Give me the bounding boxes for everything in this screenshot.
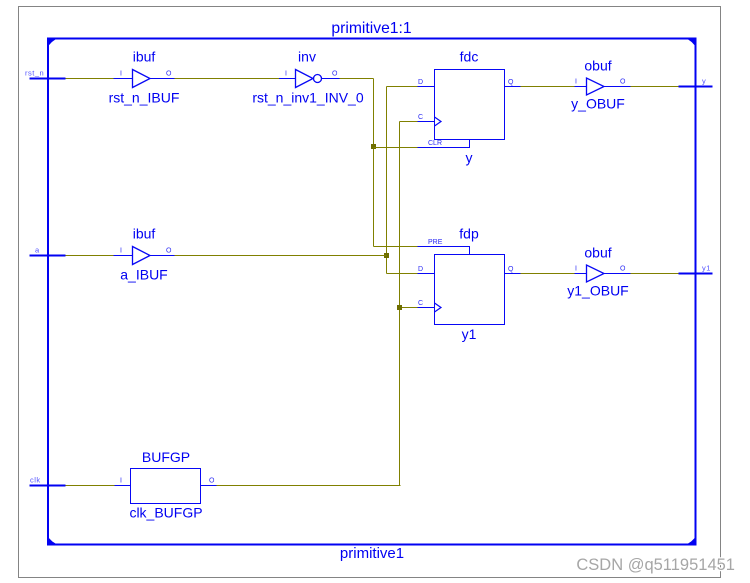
svg-text:clk_BUFGP: clk_BUFGP bbox=[129, 505, 202, 521]
inverter rst_n_inv1_INV_0 (inv) bbox=[252, 49, 364, 106]
junction on net a_IBUF bbox=[384, 253, 389, 258]
port clk bbox=[30, 476, 66, 486]
svg-text:y: y bbox=[466, 150, 473, 166]
svg-text:C: C bbox=[418, 114, 423, 121]
svg-text:rst_n_inv1_INV_0: rst_n_inv1_INV_0 bbox=[252, 90, 364, 106]
svg-text:I: I bbox=[285, 71, 287, 78]
svg-text:O: O bbox=[620, 266, 626, 273]
net clk_BUFGP : vertical to fdc C and fdp C bbox=[400, 122, 418, 486]
svg-text:I: I bbox=[575, 79, 577, 86]
svg-text:primitive1: primitive1 bbox=[340, 545, 404, 562]
buffer a_IBUF (ibuf) bbox=[114, 226, 175, 283]
svg-text:CSDN @q511951451: CSDN @q511951451 bbox=[576, 556, 735, 574]
junction on net rst_n_inv1 at CLR branch bbox=[371, 144, 376, 149]
svg-text:y_OBUF: y_OBUF bbox=[571, 96, 625, 112]
svg-text:a: a bbox=[35, 246, 40, 255]
buffer y_OBUF (obuf) bbox=[571, 58, 630, 112]
svg-text:O: O bbox=[332, 71, 338, 78]
svg-text:Q: Q bbox=[508, 79, 514, 86]
svg-text:inv: inv bbox=[298, 49, 316, 65]
junction on net clk_BUFGP bbox=[397, 305, 402, 310]
svg-text:rst_n: rst_n bbox=[25, 69, 44, 78]
flip-flop y (fdc) bbox=[418, 49, 521, 166]
wire a_IBUF output bbox=[175, 255, 387, 257]
svg-text:O: O bbox=[166, 71, 172, 78]
svg-text:obuf: obuf bbox=[584, 245, 611, 261]
svg-text:y1: y1 bbox=[702, 264, 711, 273]
svg-text:D: D bbox=[418, 266, 423, 273]
svg-text:fdc: fdc bbox=[460, 49, 479, 65]
wire CLR branch bbox=[374, 147, 418, 149]
svg-text:O: O bbox=[166, 248, 172, 255]
svg-text:CLR: CLR bbox=[428, 140, 442, 147]
port y bbox=[679, 77, 713, 87]
wire fdc Q to y_OBUF bbox=[521, 86, 575, 88]
svg-text:D: D bbox=[418, 79, 423, 86]
svg-text:fdp: fdp bbox=[459, 226, 479, 242]
flip-flop y1 (fdp) bbox=[418, 226, 521, 343]
buffer rst_n_IBUF (ibuf) bbox=[109, 49, 180, 106]
svg-text:obuf: obuf bbox=[584, 58, 611, 74]
svg-text:I: I bbox=[120, 248, 122, 255]
svg-text:rst_n_IBUF: rst_n_IBUF bbox=[109, 90, 180, 106]
wire a to ibuf bbox=[66, 255, 114, 257]
buffer clk_BUFGP (BUFGP) bbox=[115, 449, 217, 521]
sheet title primitive1:1 bbox=[331, 20, 411, 37]
svg-text:y1: y1 bbox=[462, 326, 477, 342]
wire y1_OBUF to port y1 bbox=[631, 273, 679, 275]
wire clk to BUFGP bbox=[66, 485, 115, 487]
svg-text:PRE: PRE bbox=[428, 239, 443, 246]
port a bbox=[30, 246, 66, 256]
svg-text:O: O bbox=[209, 478, 215, 485]
wire fdp Q to y1_OBUF bbox=[521, 273, 575, 275]
wire rst_n_IBUF to inv bbox=[175, 78, 280, 80]
svg-text:O: O bbox=[620, 79, 626, 86]
svg-text:C: C bbox=[418, 300, 423, 307]
wire clk_BUFGP output bbox=[217, 485, 401, 487]
port y1 bbox=[679, 264, 713, 274]
svg-text:BUFGP: BUFGP bbox=[142, 449, 190, 465]
svg-text:clk: clk bbox=[30, 476, 41, 485]
svg-text:I: I bbox=[120, 71, 122, 78]
module boundary primitive1 bbox=[47, 38, 697, 563]
port rst_n bbox=[25, 69, 66, 79]
buffer y1_OBUF (obuf) bbox=[567, 245, 630, 299]
watermark bbox=[576, 556, 735, 574]
svg-text:y1_OBUF: y1_OBUF bbox=[567, 283, 628, 299]
wire PRE branch bbox=[374, 246, 418, 248]
svg-text:Q: Q bbox=[508, 266, 514, 273]
wire y_OBUF to port y bbox=[631, 86, 679, 88]
svg-text:y: y bbox=[702, 77, 706, 86]
svg-text:I: I bbox=[120, 478, 122, 485]
svg-text:a_IBUF: a_IBUF bbox=[120, 267, 167, 283]
wire rst_n to ibuf bbox=[66, 78, 114, 80]
svg-text:I: I bbox=[575, 266, 577, 273]
net rst_n_inv1 : inv output down to CLR/PRE bbox=[340, 79, 374, 247]
svg-text:primitive1:1: primitive1:1 bbox=[331, 20, 411, 37]
net a_IBUF : vertical to fdc D and fdp D bbox=[387, 87, 418, 274]
svg-text:ibuf: ibuf bbox=[133, 226, 156, 242]
svg-text:ibuf: ibuf bbox=[133, 49, 156, 65]
